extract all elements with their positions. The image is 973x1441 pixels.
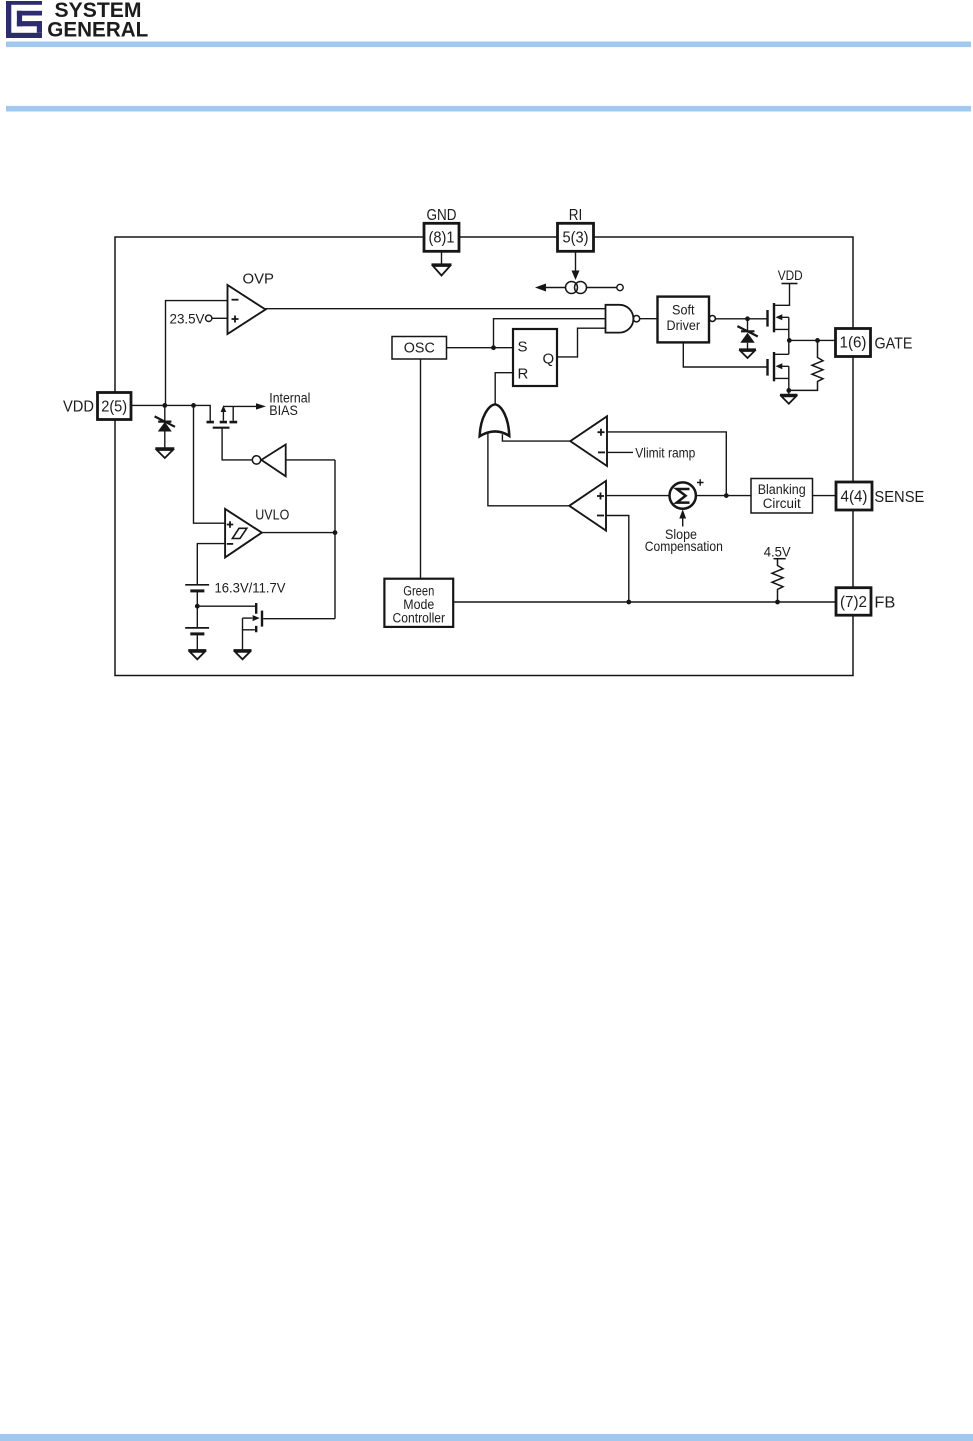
svg-text:R: R	[518, 366, 529, 383]
current source (two circles)	[566, 282, 578, 294]
node PWM minus/FB	[626, 600, 631, 605]
wire: VDD pin to bias mirror	[131, 405, 210, 421]
logo mark (SG monogram)	[6, 1, 42, 38]
gate OR U2	[480, 404, 510, 436]
wire: junction up to NAND input	[494, 319, 606, 348]
wire: bias arrow to label	[223, 405, 256, 407]
PWM plus sign	[597, 493, 604, 500]
wire: OR right input from Vlimit comparator	[502, 434, 570, 441]
transistor UVLO NMOS Q3	[197, 603, 335, 650]
ground under zener	[739, 349, 756, 358]
pin RI 5(3)	[558, 223, 594, 251]
svg-text:Blanking: Blanking	[758, 482, 806, 497]
node sigma/vlimit junction	[724, 493, 729, 498]
OVP minus sign	[232, 299, 239, 301]
svg-text:Controller: Controller	[393, 611, 446, 626]
Vlimit minus sign	[598, 451, 605, 453]
Vlimit plus sign	[598, 429, 605, 436]
section band	[6, 106, 971, 112]
wire: 23.5V to OVP plus	[212, 317, 228, 319]
terminal circle 23.5V	[206, 315, 212, 321]
svg-text:5(3): 5(3)	[563, 230, 589, 247]
wire: UVLO output	[262, 532, 335, 534]
wire: OSC to S input	[447, 347, 514, 349]
ground under zener at VDD	[155, 448, 174, 458]
block Blanking Circuit	[751, 479, 813, 514]
node at pulldown resistor	[815, 338, 820, 343]
svg-text:FB: FB	[874, 595, 895, 612]
svg-text:VDD: VDD	[778, 267, 803, 283]
svg-text:23.5V: 23.5V	[170, 310, 206, 326]
VDD rail tick	[782, 283, 798, 285]
node source/ground	[786, 388, 791, 393]
footer band	[0, 1434, 973, 1441]
pin GATE 1(6)	[836, 329, 871, 357]
node on driver wire	[745, 316, 750, 321]
ground under Q3	[234, 650, 252, 659]
wire: VDD to UVLO plus	[194, 405, 226, 523]
zener diode at VDD	[164, 405, 166, 420]
zener diode at driver node	[747, 319, 749, 332]
svg-text:Compensation: Compensation	[645, 538, 723, 554]
svg-text:(8)1: (8)1	[429, 230, 455, 247]
terminal circle right of current source	[617, 284, 623, 290]
gate NAND U1	[606, 305, 634, 333]
node battery mid	[195, 604, 200, 609]
plus label at sigma	[697, 479, 704, 486]
wire: inverter output to mirror gate	[222, 428, 252, 460]
svg-text:S: S	[518, 339, 528, 356]
node VDD/zener	[162, 403, 167, 408]
UVLO minus sign	[227, 543, 233, 545]
node gate output	[787, 338, 792, 343]
block OSC	[392, 337, 447, 360]
wire: Vlimit ramp stub	[607, 451, 633, 453]
comparator OVP	[228, 285, 266, 334]
Soft Driver output bubble	[709, 316, 715, 322]
svg-text:SENSE: SENSE	[874, 489, 924, 506]
node OSC/S junction	[491, 345, 496, 350]
node VDD/UVLO	[191, 403, 196, 408]
wire: PWM minus to FB line	[606, 516, 629, 603]
ground under source	[780, 395, 798, 404]
svg-text:VDD: VDD	[63, 399, 94, 416]
NAND output bubble	[633, 316, 639, 322]
pin FB (7)2	[836, 588, 871, 616]
svg-text:BIAS: BIAS	[269, 403, 298, 418]
svg-text:1(6): 1(6)	[840, 335, 867, 352]
resistor FB pullup	[772, 559, 783, 602]
wire: OSC down to Green Mode Controller	[420, 359, 422, 579]
svg-text:Driver: Driver	[667, 318, 701, 333]
wire: soft driver bottom to lower gate	[683, 342, 767, 367]
wire: NAND to Soft Driver	[640, 318, 658, 320]
wire: PWM plus to sigma	[606, 495, 670, 497]
wire: OVP minus input	[166, 301, 228, 406]
svg-text:GATE: GATE	[875, 336, 913, 353]
block Soft Driver	[658, 297, 710, 343]
pin GND (8)1	[424, 223, 459, 251]
latch S-R	[513, 329, 557, 386]
wire: OR left input from PWM comparator	[488, 434, 569, 506]
svg-text:Circuit: Circuit	[763, 496, 801, 511]
comparator Vlimit	[570, 416, 607, 466]
header rule bar	[6, 42, 971, 48]
pin SENSE 4(4)	[836, 482, 872, 510]
transistor lower NMOS Q2	[768, 340, 789, 390]
wire: sigma output to blanking	[696, 495, 751, 497]
block Green Mode Controller	[384, 579, 453, 627]
wire: current source right to open terminal	[587, 287, 617, 289]
svg-text:GND: GND	[427, 207, 457, 224]
wire: soft driver to upper MOSFET gate	[716, 318, 768, 320]
node UVLO output	[333, 530, 338, 535]
svg-text:GENERAL: GENERAL	[47, 19, 148, 42]
svg-text:OSC: OSC	[404, 340, 435, 356]
wire: blanking to SENSE pin	[813, 495, 837, 497]
wire: UVLO minus to reference	[197, 544, 225, 585]
OVP plus sign	[232, 316, 239, 323]
svg-text:4(4): 4(4)	[841, 488, 868, 505]
comparator PWM	[569, 481, 606, 531]
wire: RI down with arrow	[575, 252, 577, 272]
arrow slope compensation into sigma	[682, 518, 684, 527]
comparator UVLO	[225, 509, 262, 558]
wire: node to GATE pin	[789, 339, 836, 341]
svg-text:(7)2: (7)2	[840, 594, 867, 611]
svg-text:Vlimit ramp: Vlimit ramp	[635, 445, 695, 461]
4.5V rail tick	[774, 558, 786, 560]
svg-text:Soft: Soft	[672, 302, 695, 317]
wire: UVLO node vertical	[334, 460, 336, 619]
wire: zener to ground	[747, 343, 749, 349]
svg-text:OVP: OVP	[243, 271, 275, 288]
UVLO plus sign	[227, 521, 233, 527]
wire: R input from OR gate	[495, 373, 513, 404]
wire: Q output to NAND input	[557, 328, 606, 357]
svg-text:4.5V: 4.5V	[764, 544, 792, 560]
transistor upper NMOS Q1	[768, 303, 789, 340]
wire: FB line	[453, 601, 836, 603]
wire: OVP output to NAND	[266, 308, 606, 310]
wire: inverter input	[286, 459, 335, 461]
wire: current source left output with arrow	[546, 287, 566, 289]
wire: Vlimit plus input	[607, 432, 726, 496]
summation node sigma	[670, 482, 696, 508]
resistor gate pulldown	[789, 340, 823, 390]
node resistor/FB	[775, 600, 780, 605]
pin VDD 2(5)	[98, 393, 132, 420]
wire: VDD to upper MOSFET drain	[774, 284, 790, 306]
ground symbol under GND pin	[441, 252, 443, 265]
ground under battery	[188, 650, 206, 659]
svg-text:16.3V/11.7V: 16.3V/11.7V	[215, 579, 287, 595]
svg-text:Q: Q	[543, 351, 555, 368]
inverter U3	[261, 445, 285, 477]
svg-text:UVLO: UVLO	[255, 508, 289, 524]
svg-text:RI: RI	[569, 207, 583, 224]
battery reference 16.3V/11.7V	[185, 585, 209, 650]
PWM minus sign	[597, 515, 604, 517]
UVLO hysteresis symbol	[232, 528, 246, 538]
IC boundary box	[115, 237, 853, 676]
svg-text:2(5): 2(5)	[101, 399, 127, 416]
current mirror internal bias	[207, 405, 238, 428]
